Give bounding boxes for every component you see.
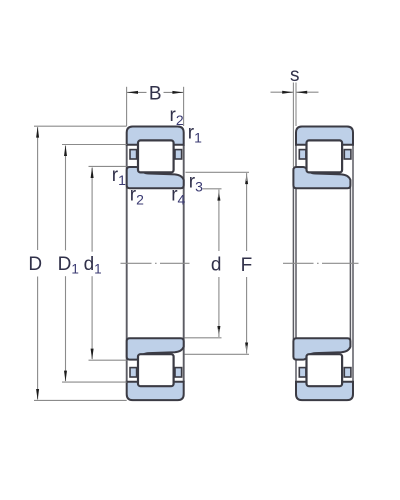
dimension D line and arrows (37, 127, 39, 250)
outer ring top section (right view) (296, 127, 353, 145)
dimension d1 extension line top (89, 165, 127, 167)
outer ring bottom section (right view) (296, 382, 353, 400)
outer ring left flange (left view top) (130, 150, 137, 159)
dimension d extension line bottom (185, 337, 222, 339)
dimension D extension line bottom (34, 399, 127, 401)
svg-text:s: s (290, 65, 300, 86)
wire right-view outer ring left face line (295, 145, 297, 382)
roller bottom (left view) (138, 354, 174, 386)
wire right-view outer ring right face line (352, 145, 354, 382)
svg-text:F: F (241, 255, 253, 276)
outer ring left flange (right view bottom) (299, 368, 306, 377)
outer ring right flange (right view bottom) (344, 368, 351, 377)
dimension D extension line top (34, 125, 127, 127)
roller top (left view) (138, 140, 174, 172)
dimension D1 extension line top (62, 144, 127, 146)
wire left-view right face line (183, 145, 185, 382)
inner ring top section (right view) (293, 167, 350, 188)
dimension d line and arrows (218, 198, 220, 252)
dimension s extension line (inner ring face) (292, 83, 294, 168)
outer ring left flange (left view bottom) (130, 368, 137, 377)
inner ring bottom section (right view) (293, 338, 350, 359)
wire right-view inner ring right face line (349, 180, 351, 347)
dimension F extension line bottom (185, 353, 250, 355)
outer ring right flange (right view top) (344, 150, 351, 159)
dimension F extension line top (186, 171, 250, 173)
outer ring bottom section (left view) (127, 382, 184, 400)
dimension D1 line and arrows (65, 146, 67, 251)
dimension B line and arrows (127, 91, 147, 93)
dimension d extension line top (203, 188, 222, 190)
inner ring top section (left view) (127, 167, 184, 188)
inner ring bottom section (left view) (127, 338, 184, 359)
outer ring right flange (left view bottom) (175, 368, 182, 377)
node right-view centerline (283, 262, 359, 264)
dimension d1 line and arrows (91, 168, 93, 252)
dimension d1 extension line bottom (89, 359, 127, 361)
dimension D1 extension line bottom (62, 381, 127, 383)
roller bottom (right view) (307, 354, 343, 386)
node left-view centerline (121, 262, 190, 264)
dimension s line and arrows (271, 91, 294, 93)
dimension s extension line (outer ring face) (295, 83, 297, 127)
svg-text:d: d (211, 255, 222, 276)
svg-text:B: B (149, 83, 162, 104)
outer ring top section (left view) (127, 127, 184, 145)
wire left-view left face line (126, 145, 128, 382)
dimension B extension lines (126, 87, 128, 126)
outer ring left flange (right view top) (299, 150, 306, 159)
wire right-view inner ring left face line (292, 169, 294, 358)
roller top (right view) (307, 140, 343, 172)
dimension F line and arrows (246, 181, 248, 251)
svg-text:D: D (28, 254, 42, 275)
outer ring right flange (left view top) (175, 150, 182, 159)
